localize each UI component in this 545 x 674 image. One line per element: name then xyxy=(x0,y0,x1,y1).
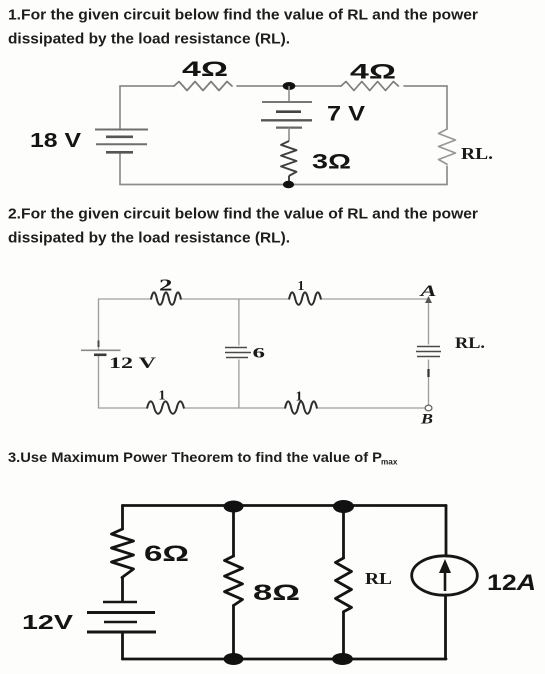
current source arrow xyxy=(444,568,447,591)
wire left lower xyxy=(119,153,121,185)
wire c3 mid2 upper xyxy=(342,506,345,558)
resistor 8ohm zigzag xyxy=(225,556,243,605)
node dot c3 top2 xyxy=(333,500,354,513)
node dot c3 bottom1 xyxy=(224,653,244,665)
node top junction circuit1 xyxy=(283,82,296,90)
wire c2 middle lower xyxy=(238,360,240,408)
resistor R 4ohm left zigzag xyxy=(174,82,232,91)
svg-text:4Ω: 4Ω xyxy=(182,58,228,81)
svg-text:3.Use Maximum Power Theorem to: 3.Use Maximum Power Theorem to find the … xyxy=(8,450,382,465)
arrow tick mid right wire xyxy=(427,369,429,377)
svg-text:4Ω: 4Ω xyxy=(350,61,396,84)
wire c3 right lower xyxy=(444,595,447,659)
resistor RL c3 zigzag xyxy=(336,558,352,612)
wire c2 right lower xyxy=(428,360,430,405)
wire right side upper xyxy=(446,86,448,129)
svg-text:6: 6 xyxy=(253,346,266,362)
wire c2 right upper xyxy=(428,302,430,344)
svg-text:18 V: 18 V xyxy=(30,130,82,152)
svg-text:1: 1 xyxy=(298,278,305,293)
wire c2 middle upper xyxy=(238,299,240,345)
resistor 1 top zigzag c2 xyxy=(289,292,321,304)
wire left upper xyxy=(119,86,121,129)
resistor 1 bottomright zigzag c2 xyxy=(285,401,317,413)
wire c3 left mid xyxy=(121,578,124,602)
svg-text:12A: 12A xyxy=(487,570,536,595)
wire c3 left upper xyxy=(121,506,124,530)
wire c2 bottom right xyxy=(317,407,424,409)
wire c3 top xyxy=(123,504,447,507)
resistor 1 bottomleft zigzag c2 xyxy=(147,401,184,413)
resistor RL circuit1 zigzag xyxy=(439,129,456,164)
wire top-right segment xyxy=(404,85,447,87)
wire right side lower xyxy=(446,166,448,184)
resistor 6 coil c2 xyxy=(225,348,251,358)
wire top-middle segment xyxy=(237,85,341,87)
wire middle branch upper xyxy=(288,86,290,101)
svg-text:2: 2 xyxy=(159,276,173,295)
wire c3 right upper xyxy=(445,506,448,557)
svg-text:dissipated by the load resista: dissipated by the load resistance (RL). xyxy=(8,32,290,48)
svg-text:A: A xyxy=(419,283,437,300)
wire c3 bottom xyxy=(123,658,447,661)
battery V1 18V plates xyxy=(95,130,148,153)
battery 12V plates c2 xyxy=(81,349,121,351)
svg-text:RL: RL xyxy=(365,569,392,588)
node bottom junction circuit1 xyxy=(283,181,294,189)
resistor 3ohm zigzag xyxy=(281,141,297,184)
svg-text:dissipated by the load resista: dissipated by the load resistance (RL). xyxy=(8,231,290,247)
svg-text:12 V: 12 V xyxy=(109,355,157,372)
wire c2 left upper xyxy=(98,299,100,350)
svg-text:RL.: RL. xyxy=(461,144,493,163)
wire c2 top middle xyxy=(180,298,289,300)
svg-text:6Ω: 6Ω xyxy=(144,541,189,566)
wire c2 bottom middle xyxy=(184,407,285,409)
resistor RL coil c2 xyxy=(416,347,441,357)
wire c2 top left xyxy=(99,298,152,300)
wire c2 top right xyxy=(321,298,429,300)
svg-text:7 V: 7 V xyxy=(327,103,365,126)
battery 12V plus tick xyxy=(98,341,100,348)
current source ellipse xyxy=(412,556,478,595)
svg-text:2.For the given circuit below: 2.For the given circuit below find the v… xyxy=(8,207,478,223)
svg-text:max: max xyxy=(381,458,398,467)
wire bottom xyxy=(120,184,447,186)
node dot c3 bottom2 xyxy=(332,653,353,665)
node dot c3 top1 xyxy=(224,501,244,513)
resistor 4ohm right zigzag xyxy=(341,82,398,91)
svg-text:12V: 12V xyxy=(22,611,73,634)
svg-text:1.For the given circuit below: 1.For the given circuit below find the v… xyxy=(8,8,478,24)
wire top-left segment xyxy=(120,85,174,87)
svg-text:RL.: RL. xyxy=(455,335,485,352)
wire c2 bottom left xyxy=(99,407,148,409)
svg-text:8Ω: 8Ω xyxy=(253,580,300,605)
svg-text:1: 1 xyxy=(159,389,166,404)
wire middle branch mid xyxy=(288,128,290,141)
svg-text:3Ω: 3Ω xyxy=(312,151,351,174)
wire c3 mid1 lower xyxy=(232,606,235,660)
arrowhead under A xyxy=(425,296,432,303)
node B open circle xyxy=(425,405,432,411)
wire c3 mid1 upper xyxy=(232,506,235,556)
resistor 2 zigzag c2 xyxy=(151,292,181,304)
resistor 6ohm zigzag xyxy=(112,529,134,578)
wire c3 mid2 lower xyxy=(342,613,345,660)
battery V2 7V plates xyxy=(261,102,312,128)
battery 12V c3 plates xyxy=(87,602,156,632)
svg-text:B: B xyxy=(420,412,433,428)
wire c2 left lower xyxy=(98,355,100,409)
svg-text:1: 1 xyxy=(296,390,303,405)
wire c3 left lower xyxy=(121,633,124,660)
